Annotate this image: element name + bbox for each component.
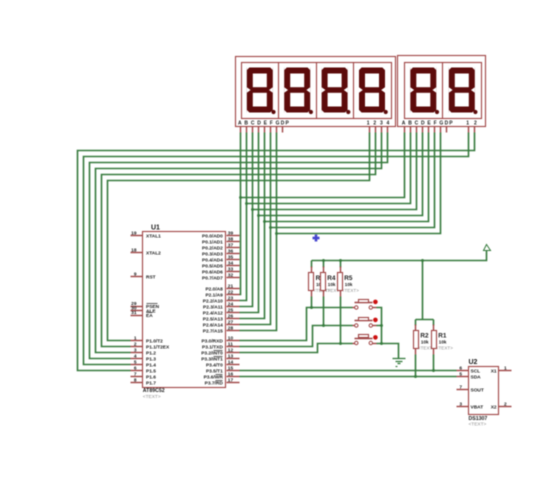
junction SEGE: [263, 220, 266, 223]
junction KEY1/R3: [310, 306, 313, 309]
U1 pin 5 (P1.4) stub: [131, 364, 143, 366]
svg-text:37: 37: [228, 243, 234, 249]
svg-text:U1: U1: [151, 225, 160, 232]
svg-text:13: 13: [228, 354, 234, 360]
DS1 segment pins A-G,DP (red stubs): [240, 127, 242, 133]
svg-text:AT89C52: AT89C52: [143, 388, 165, 394]
svg-text:DP: DP: [281, 120, 290, 126]
junction R1/SCL: [432, 369, 435, 372]
U1 pin 10 (P3.0/RXD) stub: [227, 340, 240, 342]
svg-text:U2: U2: [469, 359, 478, 366]
button actuator bar: [355, 320, 373, 322]
svg-text:27: 27: [228, 320, 234, 326]
wire net SEGA branch to DS2 A: [241, 133, 405, 198]
DS1 digit separator: [353, 63, 355, 119]
svg-text:DP: DP: [445, 120, 454, 126]
U1 pin 3 (P1.2) stub: [131, 352, 143, 354]
svg-text:P0.2/AD2: P0.2/AD2: [202, 246, 223, 252]
U1 pin 13 (P3.3/INT1) stub: [227, 358, 240, 360]
button left contact: [353, 307, 355, 309]
wire net SCL: U1 P3.5 - R1 - U2 SCL: [240, 370, 457, 372]
DS1 digit window frame: [242, 63, 392, 119]
svg-text:P3.1/TXD: P3.1/TXD: [202, 345, 223, 351]
junction KEY2/R4: [322, 324, 325, 327]
wire net SEGE: DS1 E - U1 P2.5: [240, 133, 265, 319]
svg-text:4: 4: [134, 354, 137, 360]
svg-text:6: 6: [134, 366, 137, 372]
origin marker (blue cross): [313, 235, 320, 242]
wire net SEL2: DS1 pin2 - U1 P1.1: [102, 133, 376, 347]
svg-text:RST: RST: [146, 275, 156, 281]
U1 pin 36 (P0.3/AD3) stub: [227, 253, 240, 255]
button actuator bar: [355, 302, 373, 304]
svg-text:3: 3: [134, 348, 137, 354]
svg-text:9: 9: [134, 272, 137, 278]
wire net SEGF branch to DS2 F: [271, 133, 435, 228]
svg-text:7: 7: [134, 372, 137, 378]
svg-text:XTAL1: XTAL1: [146, 234, 161, 240]
svg-text:17: 17: [228, 378, 234, 384]
wire net SEGC branch to DS2 C: [253, 133, 417, 210]
svg-text:<TEXT>: <TEXT>: [143, 394, 161, 400]
button left contact: [353, 343, 355, 345]
svg-text:X1: X1: [491, 369, 497, 375]
button state dot (red): [373, 318, 378, 323]
svg-text:12: 12: [228, 348, 234, 354]
junction buttons common row3: [380, 342, 383, 345]
U2 pin 5 (SDA) stub: [457, 376, 469, 378]
wire net SDA: U1 P3.6 - R2 - U2 SDA: [240, 376, 457, 378]
junction KEY3/R5: [339, 342, 342, 345]
DS1 digit 3 decimal point: [346, 110, 350, 114]
svg-text:P1.3: P1.3: [146, 357, 156, 363]
U1 pin 27 (P2.6/A14) stub: [227, 324, 240, 326]
svg-text:VBAT: VBAT: [471, 405, 484, 411]
svg-text:SCL: SCL: [471, 369, 481, 375]
DS1 digit 2 segments (8): [284, 68, 310, 113]
junction SEGF: [269, 226, 272, 229]
svg-text:P3.0/RXD: P3.0/RXD: [201, 339, 223, 345]
power VCC symbol (arrow): [484, 245, 491, 251]
svg-text:P0.1/AD1: P0.1/AD1: [202, 240, 223, 246]
svg-text:P2.5/A13: P2.5/A13: [203, 317, 223, 323]
wire net SEGC: DS1 C - U1 P2.3: [240, 133, 253, 307]
U1 pin 32 (P0.7/AD7) stub: [227, 277, 240, 279]
op U2 body (DS1307): [469, 367, 499, 415]
svg-text:26: 26: [228, 314, 234, 320]
svg-text:28: 28: [228, 326, 234, 332]
wire net SEGA: DS1 A - U1 P2.1: [240, 133, 241, 295]
op U1 body (AT89C52): [143, 232, 226, 388]
U1 pin 17 (P3.7/RD) stub: [227, 382, 240, 384]
wire net SEL5: DS2 pin1 - U1 P1.4: [84, 133, 469, 365]
junction buttons common row2: [380, 324, 383, 327]
junction SEGB: [245, 202, 248, 205]
svg-text:10k: 10k: [345, 282, 353, 287]
wire net KEY1: U1 P3.0 - R3 - SW1: [240, 297, 353, 341]
svg-text:SOUT: SOUT: [471, 388, 484, 394]
U1 pin 1 (P1.0/T2) stub: [131, 340, 143, 342]
svg-text:<TEXT>: <TEXT>: [469, 421, 487, 427]
U1 pin 12 (P3.2/INT0) stub: [227, 352, 240, 354]
wire net KEY2: U1 P3.1 - R4 - SW2: [240, 297, 353, 347]
wire net SEGB: DS1 B - U1 P2.2: [240, 133, 247, 301]
svg-text:10k: 10k: [328, 282, 336, 287]
wire net SEL1: DS1 pin1 - U1 P1.0: [108, 133, 370, 341]
junction VCC rail / R4: [322, 259, 325, 262]
wire net SEL4: DS1 pin4 - U1 P1.3: [90, 133, 388, 359]
U1 pin 7 (P1.6) stub: [131, 376, 143, 378]
U1 pin 24 (P2.3/A11) stub: [227, 306, 240, 308]
wire net SEGG: DS1 G - U1 P2.7: [240, 133, 277, 331]
svg-text:P0.6/AD6: P0.6/AD6: [202, 270, 223, 276]
svg-text:32: 32: [228, 273, 234, 279]
svg-text:X2: X2: [491, 405, 497, 411]
DS1 digit 3 segments (8): [322, 68, 348, 113]
DS1 digit 4 segments (8): [359, 68, 385, 113]
svg-text:<TEXT>: <TEXT>: [342, 288, 359, 293]
svg-text:3: 3: [459, 401, 462, 407]
svg-text:P0.3/AD3: P0.3/AD3: [202, 252, 223, 258]
U1 pin 6 (P1.5) stub: [131, 370, 143, 372]
DS2 digit 2 decimal point: [473, 110, 477, 114]
svg-text:P0.4/AD4: P0.4/AD4: [202, 258, 223, 264]
U1 pin 2 (P1.1/T2EX) stub: [131, 346, 143, 348]
U1 pin 29 (PSEN) stub: [131, 306, 143, 308]
svg-text:R1: R1: [438, 333, 447, 340]
DS1 digit 1 segments (8): [247, 68, 273, 113]
wire net SEL6: DS2 pin2 - U1 P1.5: [78, 133, 475, 371]
U1 pin 8 (P1.7) stub: [131, 382, 143, 384]
U2 pin 6 (SCL) stub: [457, 370, 469, 372]
wire R1 leg to SCL: [433, 355, 435, 371]
resistor R5 pins: [340, 267, 342, 273]
svg-text:<TEXT>: <TEXT>: [436, 346, 453, 351]
DS1 digit 1 decimal point: [271, 110, 275, 114]
svg-text:18: 18: [131, 248, 137, 254]
svg-text:P3.2/INT0: P3.2/INT0: [201, 351, 223, 357]
svg-text:10: 10: [228, 336, 234, 342]
junction SEGA: [239, 196, 242, 199]
svg-text:39: 39: [228, 231, 234, 237]
button left contact: [353, 325, 355, 327]
U1 pin 28 (P2.7/A15) stub: [227, 330, 240, 332]
svg-text:33: 33: [228, 267, 234, 273]
ground: [393, 358, 406, 360]
wire net SEGE branch to DS2 E: [265, 133, 429, 222]
svg-text:14: 14: [228, 360, 234, 366]
wire net SEGD: DS1 D - U1 P2.4: [240, 133, 259, 313]
svg-text:P2.4/A12: P2.4/A12: [203, 311, 223, 317]
junction SEGG: [275, 232, 278, 235]
svg-text:EA: EA: [146, 313, 153, 319]
resistor R2 body: [414, 331, 419, 349]
7-segment display DS2 (2-digit multiplexed) outer body: [398, 56, 486, 127]
svg-text:R5: R5: [344, 275, 353, 282]
junction VCC rail / R1R2 feed: [421, 259, 424, 262]
DS2 digit 1 decimal point: [435, 110, 439, 114]
DS2 digit separator: [442, 63, 444, 119]
wire R2 leg to SDA: [415, 355, 417, 377]
svg-text:P2.6/A14: P2.6/A14: [203, 323, 223, 329]
DS2 digit-select pins 1-2 (red stubs): [468, 127, 470, 133]
U1 pin 14 (P3.4/T0) stub: [227, 364, 240, 366]
U1 pin 39 (P0.0/AD0) stub: [227, 235, 240, 237]
svg-text:DS1307: DS1307: [469, 416, 488, 422]
resistor R1 body: [432, 331, 437, 349]
U1 pin 30 (ALE) stub: [131, 310, 143, 312]
U1 pin 34 (P0.5/AD5) stub: [227, 265, 240, 267]
svg-text:P1.1/T2EX: P1.1/T2EX: [146, 345, 170, 351]
button actuator bar: [355, 338, 373, 340]
resistor R2 pins: [415, 325, 417, 331]
wire net SEGD branch to DS2 D: [259, 133, 423, 216]
wire VCC rail: [312, 251, 487, 261]
U1 pin 26 (P2.5/A13) stub: [227, 318, 240, 320]
svg-text:19: 19: [131, 231, 137, 237]
DS2 digit 1 segments (8): [410, 68, 436, 113]
U1 pin 38 (P0.1/AD1) stub: [227, 241, 240, 243]
button right contact: [373, 307, 377, 309]
U1 pin 18 (XTAL2) stub: [131, 252, 143, 254]
U2 pin 7 (SOUT) stub: [457, 389, 469, 391]
DS1 digit 2 decimal point: [309, 110, 313, 114]
DS1 digit 4 decimal point: [384, 110, 388, 114]
DS2 segment pins A-G,DP (red stubs): [404, 127, 406, 133]
wire VCC drops to R3 R4 R5: [312, 261, 341, 268]
svg-text:7: 7: [459, 384, 462, 390]
svg-text:P3.7/RD: P3.7/RD: [205, 381, 224, 387]
svg-text:23: 23: [228, 296, 234, 302]
svg-text:35: 35: [228, 255, 234, 261]
U1 pin 4 (P1.3) stub: [131, 358, 143, 360]
svg-text:P2.1/A9: P2.1/A9: [205, 293, 223, 299]
svg-text:P1.5: P1.5: [146, 369, 156, 375]
U1 pin 37 (P0.2/AD2) stub: [227, 247, 240, 249]
svg-text:22: 22: [228, 290, 234, 296]
svg-text:10k: 10k: [421, 340, 429, 345]
svg-text:P3.4/T0: P3.4/T0: [206, 363, 223, 369]
U1 pin 11 (P3.1/TXD) stub: [227, 346, 240, 348]
button state dot (red): [373, 335, 378, 340]
svg-text:P3.6/WR: P3.6/WR: [204, 375, 224, 381]
svg-text:P1.4: P1.4: [146, 363, 156, 369]
U1 pin 19 (XTAL1) stub: [131, 235, 143, 237]
svg-text:P2.7/A15: P2.7/A15: [203, 329, 223, 335]
svg-text:P1.2: P1.2: [146, 351, 156, 357]
svg-text:5: 5: [459, 371, 462, 377]
svg-text:XTAL2: XTAL2: [146, 251, 161, 257]
svg-text:38: 38: [228, 237, 234, 243]
wire net SEGG branch to DS2 G: [277, 133, 441, 234]
svg-text:25: 25: [228, 308, 234, 314]
resistor R3 pins: [311, 267, 313, 273]
svg-text:P0.0/AD0: P0.0/AD0: [202, 234, 223, 240]
svg-text:15: 15: [228, 366, 234, 372]
resistor R3 body: [309, 273, 314, 291]
svg-text:21: 21: [228, 284, 234, 290]
svg-text:10k: 10k: [439, 340, 447, 345]
wire button common to ground: [377, 308, 399, 359]
U1 pin 31 (EA) stub: [131, 315, 143, 317]
U1 pin 22 (P2.1/A9) stub: [227, 294, 240, 296]
svg-text:P2.0/A8: P2.0/A8: [205, 287, 223, 293]
svg-text:P3.5/T1: P3.5/T1: [206, 369, 223, 375]
DS1 digit separator: [316, 63, 318, 119]
U2 pin 1 (X1) stub: [499, 370, 512, 372]
wire net SEGF: DS1 F - U1 P2.6: [240, 133, 271, 325]
svg-text:P0.7/AD7: P0.7/AD7: [202, 276, 223, 282]
svg-text:36: 36: [228, 249, 234, 255]
svg-text:2: 2: [134, 342, 137, 348]
junction R2/SDA: [414, 375, 417, 378]
svg-text:1: 1: [134, 336, 137, 342]
7-segment display DS1 (4-digit multiplexed) outer body: [236, 57, 396, 127]
svg-text:R4: R4: [327, 275, 336, 282]
DS1 digit-select pins 1-4 (red stubs): [369, 127, 371, 133]
svg-text:31: 31: [131, 310, 137, 316]
svg-text:11: 11: [228, 342, 233, 348]
DS1 digit separator: [278, 63, 280, 119]
U1 pin 25 (P2.4/A12) stub: [227, 312, 240, 314]
U1 pin 23 (P2.2/A10) stub: [227, 300, 240, 302]
svg-text:P3.3/INT1: P3.3/INT1: [201, 357, 223, 363]
resistor R4 body: [321, 273, 326, 291]
svg-text:P2.2/A10: P2.2/A10: [203, 299, 223, 305]
svg-text:R2: R2: [420, 333, 429, 340]
svg-text:P0.5/AD5: P0.5/AD5: [202, 264, 223, 270]
svg-text:P1.7: P1.7: [146, 381, 156, 387]
resistor R1 pins: [433, 325, 435, 331]
U1 pin 21 (P2.0/A8) stub: [227, 288, 240, 290]
resistor R5 body: [338, 273, 343, 291]
junction SEGD: [257, 214, 260, 217]
svg-text:34: 34: [228, 261, 234, 267]
svg-text:8: 8: [134, 378, 137, 384]
svg-text:P2.3/A11: P2.3/A11: [203, 305, 223, 311]
junction VCC rail / R5: [339, 259, 342, 262]
resistor R4 pins: [323, 267, 325, 273]
U1 pin 35 (P0.4/AD4) stub: [227, 259, 240, 261]
svg-text:2: 2: [504, 401, 507, 407]
wire net SEGB branch to DS2 B: [247, 133, 411, 204]
U1 pin 15 (P3.5/T1) stub: [227, 370, 240, 372]
U2 pin 3 (VBAT) stub: [457, 406, 469, 408]
button state dot (red): [373, 300, 378, 305]
U1 pin 16 (P3.6/WR) stub: [227, 376, 240, 378]
U1 pin 9 (RST) stub: [131, 276, 143, 278]
U2 pin 2 (X2) stub: [499, 406, 512, 408]
svg-text:16: 16: [228, 372, 234, 378]
wire net SEL3: DS1 pin3 - U1 P1.2: [96, 133, 382, 353]
button right contact: [373, 325, 377, 327]
DS2 digit 2 segments (8): [449, 68, 475, 113]
DS2 digit window frame: [405, 63, 482, 119]
svg-text:1: 1: [504, 365, 507, 371]
svg-text:24: 24: [228, 302, 234, 308]
svg-text:5: 5: [134, 360, 137, 366]
wire VCC feed to R1/R2: [416, 261, 434, 326]
junction SEGC: [251, 208, 254, 211]
U1 pin 33 (P0.6/AD6) stub: [227, 271, 240, 273]
svg-text:P1.0/T2: P1.0/T2: [146, 339, 163, 345]
svg-text:6: 6: [459, 365, 462, 371]
svg-text:P1.6: P1.6: [146, 375, 156, 381]
svg-text:SDA: SDA: [471, 375, 482, 381]
button right contact: [373, 343, 377, 345]
wire net KEY3: U1 P3.2 - R5 - SW3: [240, 297, 353, 353]
